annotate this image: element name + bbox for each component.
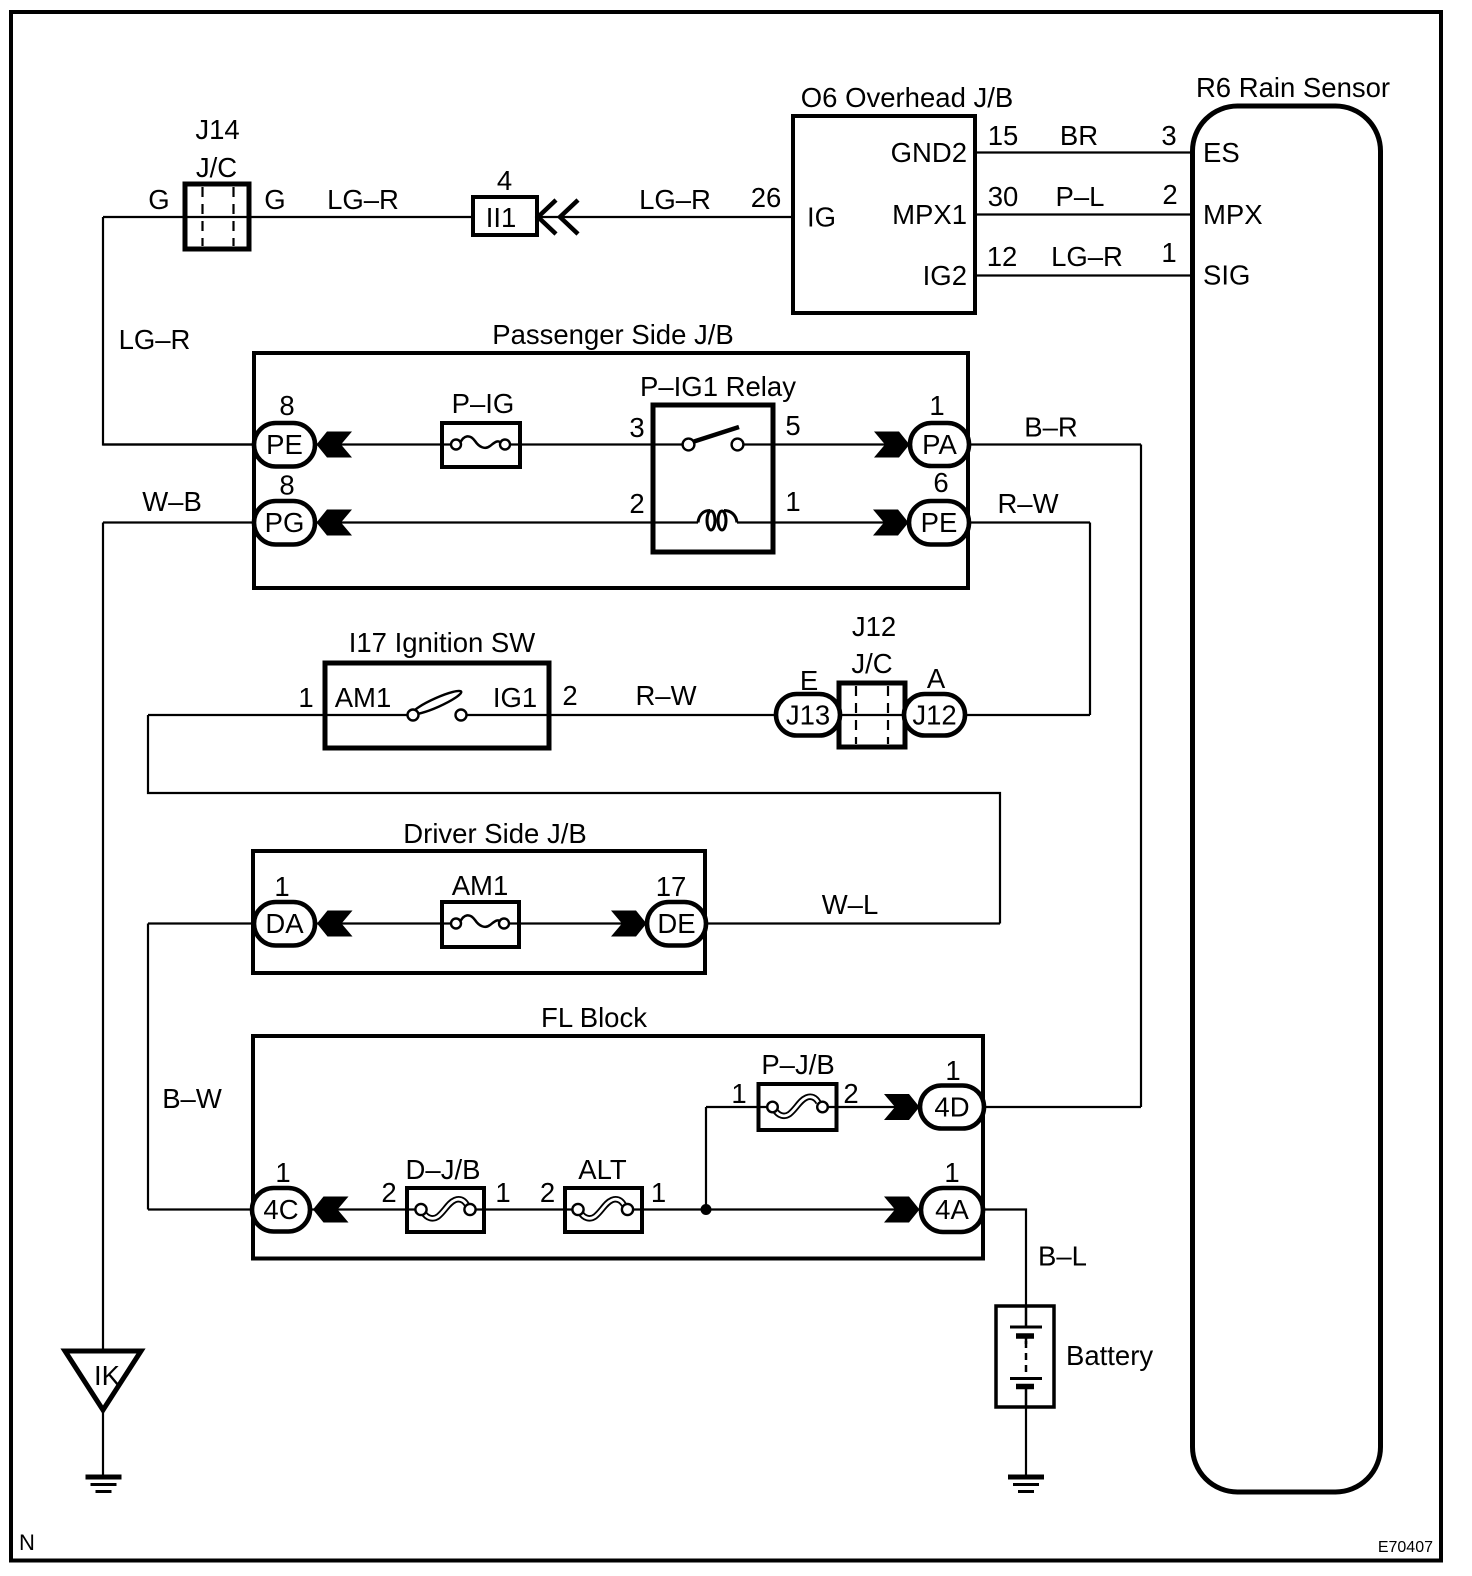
- svg-text:Battery: Battery: [1066, 1340, 1153, 1371]
- fusible link P-J/B: [759, 1084, 837, 1130]
- pin PE 6: [909, 501, 969, 545]
- wire LG-R to PE and PE to P-IG fuse: [103, 443, 461, 445]
- svg-text:G: G: [264, 184, 285, 215]
- wire LG-R IG2 to SIG (y=275.5): [975, 274, 1192, 276]
- svg-text:B–W: B–W: [162, 1083, 222, 1114]
- arrow into PG: [317, 510, 353, 536]
- wire relay pin 5 to PA and B-R: [736, 443, 1141, 445]
- wire relay coil pin 1 to PE and R-W: [737, 521, 1090, 523]
- wire 4A to battery: [982, 1210, 1026, 1307]
- fuse AM1: [442, 902, 519, 947]
- svg-text:P–L: P–L: [1056, 181, 1105, 212]
- wire IK to ground: [102, 1410, 104, 1477]
- svg-text:MPX: MPX: [1203, 199, 1263, 230]
- svg-text:R–W: R–W: [997, 488, 1058, 519]
- svg-text:J/C: J/C: [196, 152, 237, 183]
- svg-text:IG2: IG2: [923, 260, 967, 291]
- ground below battery: [1008, 1475, 1044, 1480]
- svg-text:DA: DA: [265, 908, 304, 939]
- svg-text:PE: PE: [266, 429, 303, 460]
- Driver Side J/B box: [253, 851, 705, 973]
- svg-text:1: 1: [785, 486, 800, 517]
- svg-text:PA: PA: [922, 429, 957, 460]
- wire G through J14 to II1: [103, 216, 473, 218]
- svg-text:E: E: [800, 665, 818, 696]
- chevron arrows into II1: [538, 200, 556, 234]
- svg-text:G: G: [148, 184, 169, 215]
- wire BR GND2 to ES (y=152.5): [975, 151, 1192, 153]
- svg-text:1: 1: [945, 1055, 960, 1086]
- ground below IK: [86, 1475, 122, 1480]
- junction node: [701, 1204, 712, 1215]
- battery plates: [1025, 1306, 1028, 1327]
- pin DA 1: [254, 902, 315, 946]
- svg-text:J12: J12: [912, 700, 956, 731]
- svg-text:DE: DE: [657, 908, 695, 939]
- wire D-J/B fuse to ALT fuse: [464, 1208, 584, 1210]
- svg-text:4: 4: [497, 165, 512, 196]
- wire R-W from I17 pin 2 IG1 through J13/J12: [459, 714, 1090, 716]
- wire LG-R from II1 to O6 pin IG: [537, 216, 793, 218]
- ground point IK triangle: [65, 1351, 141, 1410]
- svg-text:LG–R: LG–R: [1051, 241, 1123, 272]
- node J14 J/C: [185, 184, 249, 249]
- svg-text:4A: 4A: [935, 1194, 969, 1225]
- svg-text:1: 1: [275, 1157, 290, 1188]
- svg-text:GND2: GND2: [891, 137, 967, 168]
- arrow into 4A: [884, 1197, 920, 1223]
- Passenger Side J/B box: [254, 353, 968, 588]
- svg-text:W–L: W–L: [822, 889, 879, 920]
- svg-text:AM1: AM1: [335, 682, 392, 713]
- svg-text:2: 2: [540, 1177, 555, 1208]
- svg-text:2: 2: [1162, 179, 1177, 210]
- wire W-B vertical down to IK: [102, 523, 104, 1352]
- svg-text:2: 2: [562, 680, 577, 711]
- R6 Rain Sensor box: [1193, 106, 1381, 1492]
- fusible link ALT: [565, 1188, 642, 1232]
- svg-text:B–L: B–L: [1038, 1241, 1087, 1272]
- svg-text:IK: IK: [94, 1360, 121, 1391]
- wire junction to P-J/B fuse pin 1: [706, 1106, 778, 1108]
- wire junction vertical: [705, 1107, 707, 1210]
- wire battery to ground: [1025, 1407, 1027, 1477]
- I17 Ignition SW box: [325, 663, 549, 748]
- wire R-W vertical down to J12: [1089, 523, 1091, 716]
- svg-text:J14: J14: [195, 114, 239, 145]
- svg-text:A: A: [927, 663, 946, 694]
- wire LG-R left vertical: [103, 217, 254, 445]
- svg-text:J/C: J/C: [851, 648, 892, 679]
- svg-text:12: 12: [987, 241, 1018, 272]
- ignition switch blade: [411, 688, 463, 718]
- svg-text:3: 3: [629, 412, 644, 443]
- svg-text:1: 1: [731, 1078, 746, 1109]
- svg-text:1: 1: [929, 390, 944, 421]
- svg-text:R6 Rain Sensor: R6 Rain Sensor: [1196, 72, 1390, 103]
- svg-text:MPX1: MPX1: [892, 199, 967, 230]
- svg-text:J13: J13: [786, 700, 830, 731]
- svg-text:W–B: W–B: [142, 486, 202, 517]
- svg-text:AM1: AM1: [452, 870, 509, 901]
- svg-text:PG: PG: [265, 507, 305, 538]
- arrow into PE: [317, 432, 353, 458]
- wire AM1 down-left of I17: [148, 715, 1000, 924]
- arrow into PE pin6: [873, 510, 909, 536]
- pin J12 A: [904, 694, 965, 736]
- svg-text:1: 1: [1161, 237, 1176, 268]
- svg-text:II1: II1: [486, 202, 517, 233]
- svg-text:8: 8: [279, 390, 294, 421]
- svg-text:B–R: B–R: [1024, 412, 1078, 443]
- svg-text:3: 3: [1161, 120, 1176, 151]
- svg-text:BR: BR: [1060, 120, 1098, 151]
- svg-text:N: N: [19, 1530, 35, 1555]
- wire W-B to PG and PG to relay coil pin 2: [103, 521, 698, 523]
- svg-text:E70407: E70407: [1378, 1539, 1433, 1556]
- svg-text:LG–R: LG–R: [639, 184, 711, 215]
- svg-text:2: 2: [843, 1078, 858, 1109]
- svg-text:LG–R: LG–R: [327, 184, 399, 215]
- svg-text:IG1: IG1: [493, 682, 537, 713]
- svg-text:1: 1: [944, 1157, 959, 1188]
- svg-text:IG: IG: [807, 202, 836, 233]
- arrow into 4C: [313, 1197, 349, 1223]
- svg-text:ALT: ALT: [578, 1154, 627, 1185]
- svg-text:30: 30: [988, 181, 1019, 212]
- O6 Overhead J/B box: [793, 116, 975, 313]
- svg-text:SIG: SIG: [1203, 260, 1250, 291]
- pin DE 17: [647, 902, 706, 946]
- svg-text:2: 2: [629, 488, 644, 519]
- node J12 J/C: [839, 683, 905, 747]
- wire B-W vertical DA to 4C: [147, 924, 149, 1210]
- battery box: [996, 1306, 1054, 1407]
- arrow into DE: [611, 911, 647, 937]
- svg-text:PE: PE: [921, 507, 958, 538]
- svg-text:R–W: R–W: [635, 680, 696, 711]
- relay P-IG1 box: [653, 405, 773, 552]
- wire W-L from AM1 fuse through DE: [499, 922, 1000, 924]
- wire P-IG fuse to relay pin 3: [499, 443, 690, 445]
- svg-text:1: 1: [298, 682, 313, 713]
- svg-text:1: 1: [274, 871, 289, 902]
- svg-text:4D: 4D: [934, 1092, 969, 1123]
- arrow into PA: [874, 432, 910, 458]
- connector II1 pin 4: [473, 197, 537, 235]
- wire B-R vertical down to 4D: [1140, 445, 1142, 1108]
- wire P-L MPX1 to MPX (y=214.5): [975, 213, 1192, 215]
- svg-text:8: 8: [279, 470, 294, 501]
- svg-text:Driver Side J/B: Driver Side J/B: [403, 818, 586, 849]
- pin J13 E: [776, 694, 840, 736]
- svg-text:2: 2: [381, 1177, 396, 1208]
- svg-text:6: 6: [933, 467, 948, 498]
- svg-text:15: 15: [988, 120, 1019, 151]
- svg-text:Passenger Side J/B: Passenger Side J/B: [492, 319, 734, 350]
- svg-text:1: 1: [495, 1177, 510, 1208]
- wire P-J/B fuse pin 2 to 4D and B-R: [817, 1106, 1141, 1108]
- arrow into DA: [317, 911, 353, 937]
- svg-text:P–J/B: P–J/B: [761, 1049, 834, 1080]
- wire ALT fuse through junction to 4A: [622, 1208, 920, 1210]
- svg-text:ES: ES: [1203, 137, 1240, 168]
- svg-text:17: 17: [656, 871, 687, 902]
- pin PE 8: [254, 423, 315, 467]
- svg-text:LG–R: LG–R: [119, 324, 191, 355]
- pin 4C 1: [252, 1188, 310, 1232]
- svg-text:26: 26: [751, 182, 782, 213]
- fuse P-IG: [442, 423, 520, 467]
- svg-text:P–IG1 Relay: P–IG1 Relay: [640, 371, 796, 402]
- pin PA 1: [910, 423, 969, 466]
- svg-text:I17 Ignition SW: I17 Ignition SW: [349, 627, 536, 658]
- relay coil: [698, 511, 710, 523]
- svg-text:P–IG: P–IG: [452, 388, 515, 419]
- svg-text:FL Block: FL Block: [541, 1002, 647, 1033]
- wire B-W to DA and DA to AM1 fuse: [148, 922, 461, 924]
- FL Block box: [253, 1036, 983, 1259]
- svg-text:D–J/B: D–J/B: [406, 1154, 481, 1185]
- pin PG 8: [254, 501, 315, 545]
- pin 4D 1: [920, 1086, 984, 1129]
- svg-text:5: 5: [785, 410, 800, 441]
- arrow into 4D: [884, 1094, 920, 1120]
- svg-text:1: 1: [651, 1177, 666, 1208]
- wire to I17 pin 1 AM1: [148, 714, 415, 716]
- relay switch blade: [694, 427, 739, 442]
- svg-text:O6 Overhead J/B: O6 Overhead J/B: [801, 82, 1013, 113]
- wire B-W to 4C and 4C to D-J/B fuse: [148, 1208, 427, 1210]
- svg-text:4C: 4C: [263, 1194, 298, 1225]
- svg-text:J12: J12: [852, 611, 896, 642]
- pin 4A 1: [921, 1188, 983, 1232]
- fusible link D-J/B: [407, 1188, 484, 1232]
